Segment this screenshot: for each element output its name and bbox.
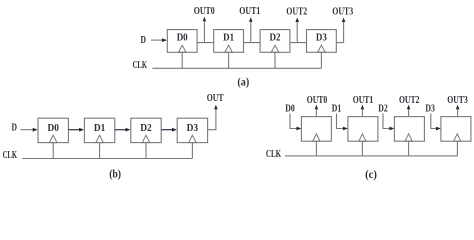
svg-text:D: D [140,35,146,46]
svg-text:D: D [11,122,17,133]
svg-text:D0: D0 [177,32,188,43]
svg-text:OUT2: OUT2 [399,95,420,106]
wire CLK to D3 (b) [191,143,193,159]
svg-text:(b): (b) [109,167,121,181]
flip-flop D1 (a) [214,30,244,53]
flip-flop D2 (b) [131,118,161,142]
svg-text:D1: D1 [94,123,106,134]
wire D2 input elbow (c) [383,114,394,131]
wire OUT1 arrow (c) [361,105,365,117]
wire OUT1 arrow (a) [249,17,253,42]
wire CLK to D3 (a) [320,52,322,68]
wire D2.Q to D3.D (a) [290,42,307,44]
svg-text:CLK: CLK [266,149,281,160]
flip-flop D0 (a) [167,30,197,53]
svg-text:OUT3: OUT3 [332,7,353,18]
wire D0.Q to D1.D (a) [197,42,214,44]
wire D1.Q to D2.D with arrow (b) [115,128,131,132]
svg-text:D3: D3 [425,103,435,114]
svg-text:OUT1: OUT1 [353,95,374,106]
wire CLK to D2 (a) [274,52,276,68]
wire D input (a) [151,39,163,41]
svg-text:D2: D2 [378,103,388,114]
svg-text:(a): (a) [237,74,249,88]
svg-text:OUT1: OUT1 [239,6,260,17]
wire CLK to D2 (b) [145,143,147,159]
svg-text:CLK: CLK [133,60,148,71]
wire D1.Q to D2.D (a) [244,42,261,44]
svg-text:D2: D2 [140,123,152,134]
flip-flop 2 (c) [348,117,378,142]
svg-text:D2: D2 [270,32,281,43]
wire CLK to FF2 (c) [361,141,363,156]
svg-text:D0: D0 [47,123,59,134]
wire OUT3 arrow (a) [342,18,346,43]
svg-text:(c): (c) [365,167,377,181]
wire CLK to FF4 (c) [456,141,458,156]
svg-text:OUT: OUT [207,93,224,104]
wire OUT0 arrow (a) [203,17,207,43]
svg-text:D0: D0 [285,103,295,114]
flip-flop D1 (b) [84,118,114,142]
wire D1 input elbow (c) [337,114,348,131]
wire CLK to D0 (a) [181,52,183,68]
wire D3.Q to OUT (b) [208,109,216,130]
wire CLK bus (b) [22,158,192,160]
wire D2.Q to D3.D with arrow (b) [161,128,177,132]
wire CLK bus (c) [285,155,457,157]
svg-text:OUT3: OUT3 [447,95,468,106]
flip-flop D0 (b) [38,118,68,142]
wire OUT3 arrow (c) [456,105,460,117]
svg-text:CLK: CLK [3,150,18,161]
flip-flop 3 (c) [394,117,424,142]
flip-flop D2 (a) [260,30,290,53]
wire CLK to D1 (a) [228,52,230,68]
svg-text:D3: D3 [187,123,199,134]
svg-text:OUT0: OUT0 [307,95,328,106]
wire CLK to D0 (b) [52,143,54,159]
svg-text:OUT0: OUT0 [194,6,215,17]
flip-flop D3 (b) [177,118,207,142]
wire CLK bus (a) [152,67,321,69]
wire CLK to D1 (b) [99,143,101,159]
wire D0.Q to D1.D with arrow (b) [68,128,84,132]
wire CLK to FF3 (c) [408,141,410,156]
wire D3 input elbow (c) [431,114,441,131]
flip-flop D3 (a) [307,30,337,53]
svg-text:D1: D1 [332,103,342,114]
wire OUT2 arrow (c) [407,105,411,117]
wire D input (b) [20,128,37,132]
wire D0 input elbow (c) [290,114,301,131]
wire OUT0 arrow (c) [315,105,319,117]
wire CLK to FF1 (c) [315,141,317,156]
svg-text:D1: D1 [223,32,234,43]
svg-text:OUT2: OUT2 [286,7,307,18]
flip-flop 4 (c) [441,117,471,142]
wire D3.Q stub (a) [336,42,343,44]
svg-text:D3: D3 [316,32,327,43]
wire OUT2 arrow (a) [295,18,299,43]
flip-flop 1 (c) [301,117,331,142]
